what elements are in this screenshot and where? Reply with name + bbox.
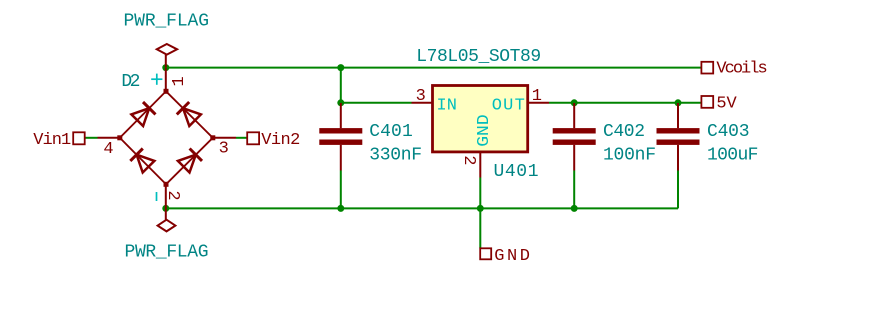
svg-text:PWR_FLAG: PWR_FLAG bbox=[125, 243, 209, 263]
svg-text:2: 2 bbox=[459, 155, 478, 165]
svg-text:1: 1 bbox=[170, 76, 189, 86]
svg-text:330nF: 330nF bbox=[369, 146, 422, 166]
svg-text:C402: C402 bbox=[603, 122, 645, 142]
svg-text:5V: 5V bbox=[716, 95, 737, 114]
svg-text:U401: U401 bbox=[494, 162, 539, 182]
svg-text:3: 3 bbox=[219, 140, 229, 159]
svg-text:4: 4 bbox=[103, 140, 113, 159]
svg-text:GND: GND bbox=[475, 114, 494, 147]
svg-text:Vin1: Vin1 bbox=[33, 131, 71, 150]
svg-text:GND: GND bbox=[494, 247, 530, 266]
svg-text:100uF: 100uF bbox=[707, 146, 758, 166]
svg-text:Vcoils: Vcoils bbox=[716, 60, 767, 79]
svg-text:2: 2 bbox=[163, 190, 182, 200]
svg-text:C403: C403 bbox=[707, 122, 750, 142]
svg-text:100nF: 100nF bbox=[603, 146, 656, 166]
svg-text:D2: D2 bbox=[121, 72, 140, 92]
svg-text:Vin2: Vin2 bbox=[261, 131, 300, 150]
svg-text:IN: IN bbox=[437, 97, 457, 116]
svg-text:1: 1 bbox=[532, 87, 542, 106]
svg-text:L78L05_SOT89: L78L05_SOT89 bbox=[416, 47, 541, 67]
svg-text:PWR_FLAG: PWR_FLAG bbox=[124, 12, 210, 32]
svg-text:C401: C401 bbox=[369, 122, 413, 142]
svg-text:3: 3 bbox=[416, 87, 426, 106]
svg-text:OUT: OUT bbox=[492, 97, 525, 116]
